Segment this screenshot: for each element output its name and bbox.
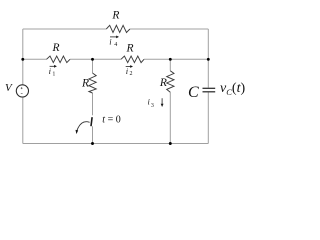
svg-text:vC(t): vC(t) (220, 81, 245, 97)
svg-text:R: R (159, 77, 167, 89)
current label i1 with vector arrow (49, 65, 57, 78)
resistor R4 (top, zigzag) (106, 25, 130, 32)
svg-text:4: 4 (114, 42, 117, 48)
svg-text:R: R (81, 78, 89, 90)
svg-text:i: i (109, 37, 112, 47)
current label i2 with vector arrow (126, 65, 133, 77)
resistor R (switch branch, vertical zigzag) (89, 73, 96, 93)
svg-text:i: i (126, 66, 129, 76)
svg-text:C: C (188, 84, 199, 101)
node: R3 branch / middle rail junction (169, 58, 172, 61)
wire: top side of outer loop (23, 28, 209, 30)
wire: R3 branch vertical segments (169, 59, 171, 143)
switch SW (blade, opens at t=0) (91, 117, 92, 126)
svg-text:3: 3 (151, 103, 154, 109)
svg-text:R: R (52, 42, 60, 54)
wire: left side of outer loop (22, 29, 24, 144)
svg-text:R: R (111, 10, 119, 22)
svg-text:1: 1 (52, 71, 55, 77)
node: switch branch / middle rail junction (91, 58, 94, 61)
resistor R3 (right middle branch, vertical zigzag) (167, 71, 174, 93)
resistor R1 (middle rail left, zigzag) (47, 56, 71, 63)
capacitor C (two plates on right wire) (203, 88, 216, 92)
wire: middle horizontal rail (23, 58, 209, 60)
node: switch branch / bottom rail junction (91, 142, 94, 145)
svg-text:2: 2 (130, 71, 133, 77)
wire: switch branch vertical segments (92, 59, 94, 143)
switch action arc with arrowhead (77, 122, 90, 131)
wire: right side of outer loop (207, 29, 209, 144)
wire: bottom side of outer loop (23, 143, 209, 145)
svg-text:t = 0: t = 0 (102, 114, 120, 125)
node: right rail / middle rail junction (207, 58, 210, 61)
current label i3 with down arrow (148, 97, 164, 110)
svg-text:R: R (126, 43, 134, 55)
node: R3 branch / bottom rail junction (169, 142, 172, 145)
svg-text:i: i (49, 66, 52, 76)
svg-text:V: V (5, 82, 13, 94)
voltage source V (circle with + / -) (16, 85, 28, 97)
current label i4 with vector arrow (109, 36, 119, 49)
resistor R2 (middle rail right, zigzag) (121, 56, 144, 63)
node: left rail / middle rail junction (21, 58, 24, 61)
